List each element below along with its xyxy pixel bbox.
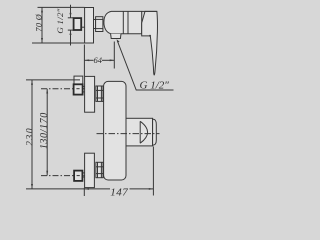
147 dimension line bbox=[84, 188, 110, 190]
union nut upper (top connection) bbox=[74, 76, 83, 84]
centerline top connection bbox=[41, 88, 85, 90]
64 dim: right extension line bbox=[113, 42, 115, 69]
extension line top (70 dia) bbox=[38, 6, 85, 8]
hex nut flat lines bbox=[96, 18, 103, 20]
handle dome chord bbox=[139, 121, 141, 143]
64 dimension line bbox=[85, 59, 94, 61]
230 dim: top extension line bbox=[26, 79, 80, 81]
230 dimension line bbox=[31, 80, 33, 189]
hex nut (top connection) bbox=[96, 86, 103, 101]
svg-text:70 Ø: 70 Ø bbox=[35, 13, 44, 31]
svg-text:230: 230 bbox=[25, 127, 35, 146]
230 arrows bbox=[31, 80, 33, 85]
shower outlet stub bbox=[111, 34, 121, 39]
body cartridge ring lines bbox=[122, 11, 124, 33]
tick G 1/2 top bbox=[68, 17, 74, 19]
arrowhead down to tick bbox=[70, 13, 72, 18]
bold dot at handle/body junction bbox=[149, 35, 151, 37]
centerline bottom connection bbox=[41, 175, 85, 177]
arrowhead down 70 dia bbox=[41, 38, 43, 43]
130/170 dimension line bbox=[46, 89, 48, 176]
handle lever blade bbox=[142, 11, 158, 75]
svg-text:G 1/2″: G 1/2″ bbox=[140, 79, 170, 91]
leader arrowhead bbox=[117, 39, 120, 43]
64 arrow left bbox=[85, 59, 90, 61]
svg-text:G 1/2″: G 1/2″ bbox=[55, 8, 65, 33]
svg-text:130/170: 130/170 bbox=[39, 112, 50, 149]
washer between plate and nut bbox=[94, 20, 96, 29]
small ledge line bbox=[81, 26, 84, 28]
centerline dash inside fitting bbox=[76, 88, 79, 90]
svg-text:147: 147 bbox=[110, 186, 128, 198]
tick G 1/2 bottom bbox=[68, 29, 74, 31]
union fitting bold (bottom connection) bbox=[74, 171, 82, 181]
handle knob cylinder bbox=[126, 118, 153, 146]
147 dim: left extension line bbox=[83, 188, 85, 196]
centerline middle (handle axis) bbox=[97, 133, 160, 135]
handle top edge bbox=[142, 10, 157, 12]
dimension line G 1/2 upper bbox=[70, 5, 72, 18]
escutcheon plate bbox=[85, 8, 94, 44]
escutcheon plate (top connection) bbox=[85, 76, 95, 112]
ticks right of fitting bottom bbox=[83, 172, 85, 174]
handle dome arc bbox=[140, 121, 147, 143]
leader line to G 1/2 outlet bbox=[117, 41, 173, 91]
mixer body outline bbox=[104, 11, 142, 33]
extension line bottom (70 dia) bbox=[32, 42, 85, 44]
knob end cap bbox=[153, 119, 157, 145]
dimension line 70 dia bbox=[41, 7, 43, 43]
hex nut (bottom connection) bbox=[96, 162, 103, 177]
147 arrows bbox=[84, 188, 89, 190]
wall union fitting (bold) bbox=[74, 18, 82, 30]
ticks right of fitting bbox=[83, 85, 85, 87]
escutcheon plate (bottom connection) bbox=[85, 153, 95, 187]
arrowhead up 70 dia bbox=[41, 8, 43, 13]
mixer body (plan) bbox=[104, 81, 126, 180]
147 dim: right extension line bbox=[152, 147, 154, 196]
centerline dash inside fitting bottom bbox=[77, 175, 80, 177]
230 dim: bottom extension line bbox=[26, 188, 84, 190]
arrowhead up to tick bbox=[70, 30, 72, 35]
64 arrow right bbox=[110, 59, 115, 61]
130/170 arrows bbox=[46, 89, 48, 94]
union fitting bold (top connection) bbox=[74, 84, 83, 94]
64 dim: left extension line bbox=[83, 45, 85, 77]
hex nut bbox=[96, 17, 103, 32]
svg-text:64: 64 bbox=[93, 55, 102, 65]
